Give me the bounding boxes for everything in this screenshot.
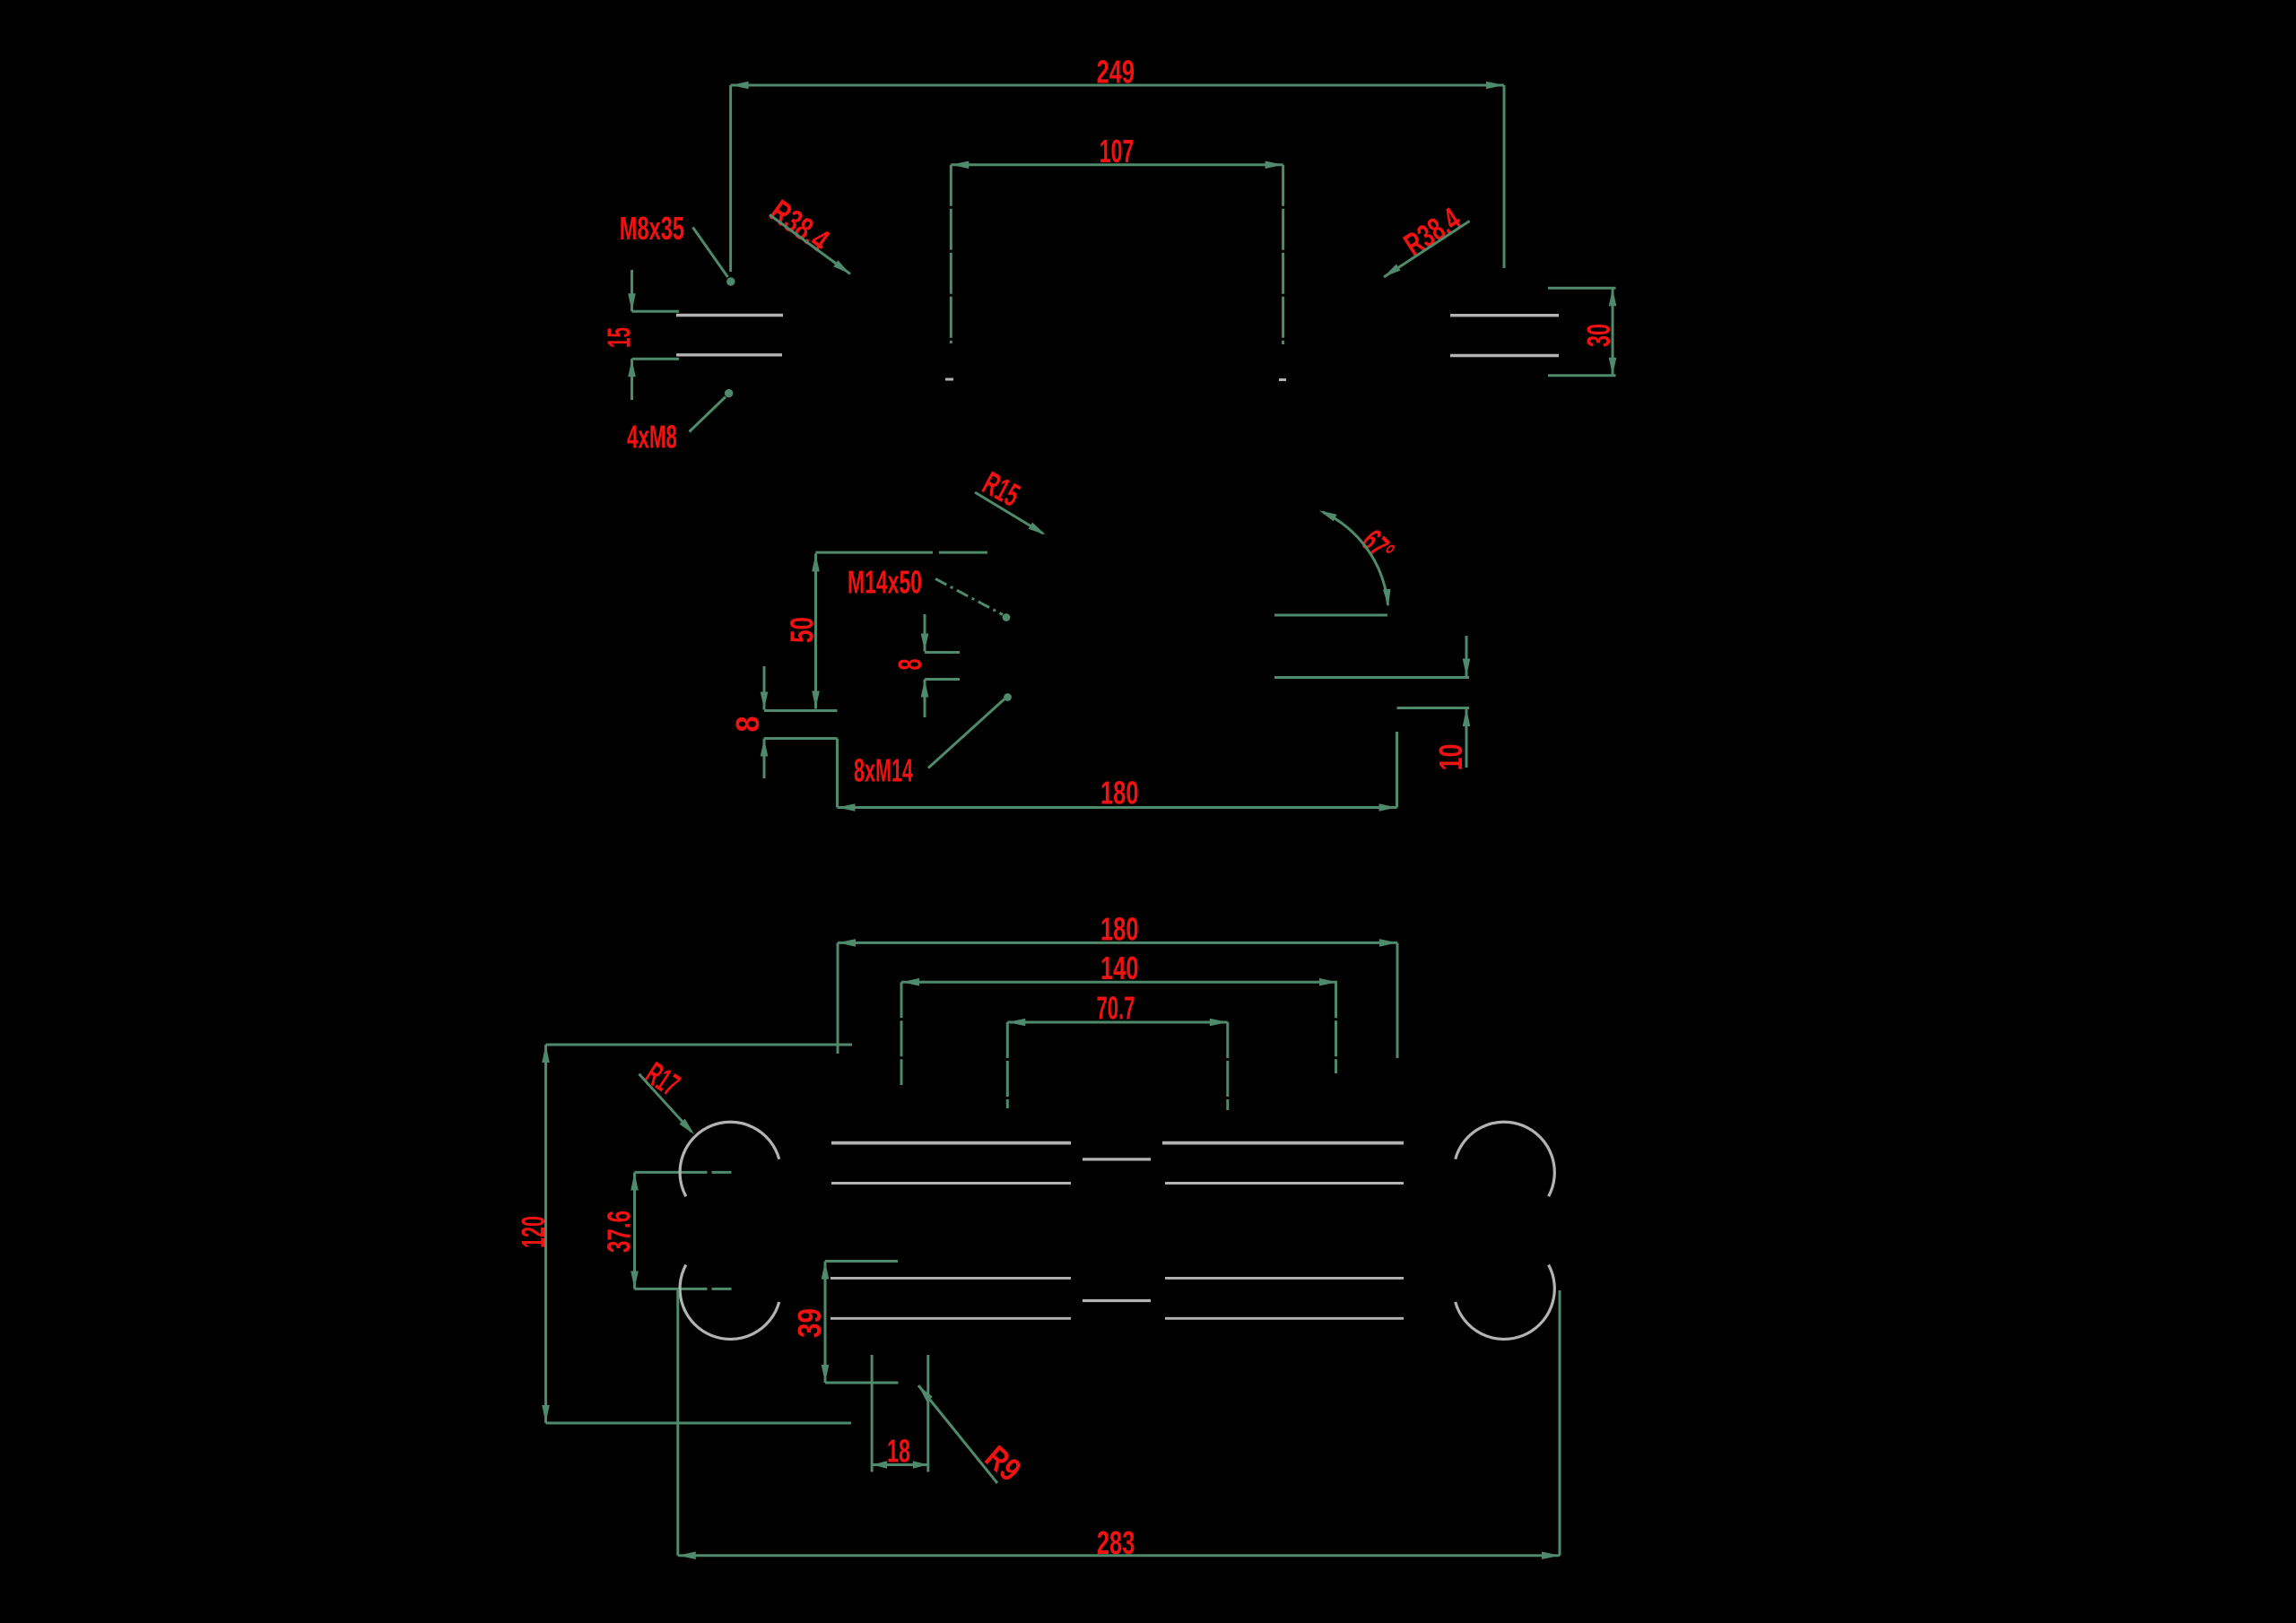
outline slot1 top left bbox=[831, 1141, 1071, 1145]
svg-text:37.6: 37.6 bbox=[601, 1211, 638, 1253]
ext line 180 bottom left bbox=[837, 942, 839, 1054]
leader R17 bbox=[639, 1074, 691, 1132]
arrow 67deg top bbox=[1319, 510, 1337, 521]
dim line 10 upper bbox=[1465, 636, 1468, 677]
ext line 67deg horizontal bbox=[1274, 614, 1387, 617]
dim line 8 left upper bbox=[763, 666, 766, 710]
ext line 249 left bbox=[729, 85, 732, 272]
ext line 50 top b bbox=[939, 551, 987, 554]
arrow 140 right bbox=[1319, 978, 1337, 986]
hidden line hole right upper bbox=[1450, 314, 1559, 317]
arrow 10 top bbox=[1463, 659, 1471, 677]
arrow R38.4 right bbox=[1384, 265, 1401, 278]
ext line 180 side left bbox=[836, 739, 839, 808]
outline slot2 bottom left bbox=[831, 1317, 1071, 1320]
arrow 249 right bbox=[1486, 82, 1504, 90]
arrow 180 bottom left bbox=[838, 939, 856, 947]
arrow 30 top bbox=[1609, 288, 1617, 306]
hidden line hole left lower bbox=[676, 353, 782, 356]
ext line 8 left bottom bbox=[764, 737, 838, 740]
leader R9 bbox=[918, 1385, 997, 1483]
ext line 18 left bbox=[871, 1355, 874, 1472]
arrow 8 left top bbox=[761, 692, 769, 710]
ext line 107 right bbox=[1282, 165, 1284, 344]
leader M14x50 bbox=[935, 579, 1003, 615]
ext line 120 top bbox=[546, 1044, 853, 1046]
arrow 70.7 right bbox=[1210, 1019, 1228, 1027]
svg-text:10: 10 bbox=[1432, 744, 1469, 771]
outline waist bottom bbox=[1083, 1299, 1151, 1302]
outline waist top bbox=[1083, 1158, 1151, 1160]
ext line 15 top bbox=[632, 310, 680, 313]
arrow 15 bottom bbox=[628, 359, 636, 377]
outline slot1 bottom left bbox=[831, 1182, 1071, 1185]
arrow 8 mid bottom bbox=[921, 680, 929, 698]
edge tick right bbox=[1279, 378, 1286, 381]
arrow 50 bottom bbox=[812, 691, 820, 709]
edge tick left bbox=[945, 378, 953, 381]
ext line 8 mid bottom bbox=[925, 678, 960, 681]
dim line 50 bbox=[814, 553, 817, 708]
arc circle top-right R17 bbox=[1456, 1122, 1555, 1196]
dim line 15 lower bbox=[631, 359, 633, 400]
dim line 18 bbox=[872, 1463, 928, 1466]
arrow 70.7 left bbox=[1007, 1019, 1025, 1027]
arrow 18 left bbox=[872, 1461, 887, 1469]
center line bottom circle a bbox=[635, 1288, 708, 1290]
dim line 37.6 bbox=[633, 1173, 636, 1289]
ext line 70.7 left bbox=[1006, 1022, 1009, 1108]
outline slot2 bottom right bbox=[1165, 1317, 1404, 1320]
leader M8x35 bbox=[693, 228, 728, 278]
ext line 50 top a bbox=[815, 551, 933, 554]
ext line 18 right bbox=[926, 1355, 929, 1472]
dim line 107 bbox=[951, 163, 1283, 166]
svg-text:8: 8 bbox=[891, 659, 928, 671]
ext line 107 left bbox=[950, 165, 952, 343]
dim arc 67deg bbox=[1323, 512, 1388, 605]
dim line 8 mid upper bbox=[924, 614, 926, 652]
ext line 70.7 right bbox=[1226, 1022, 1229, 1110]
outline slot2 top right bbox=[1165, 1277, 1404, 1280]
arrow 67deg bottom bbox=[1383, 589, 1391, 607]
arrow 39 bottom bbox=[822, 1365, 830, 1383]
ext line 8 left top bbox=[764, 709, 838, 712]
ext line 30 bottom bbox=[1548, 374, 1616, 377]
ext line 140 left bbox=[900, 982, 903, 1085]
ext line 120 bottom bbox=[546, 1422, 852, 1425]
arrow 10 bottom bbox=[1463, 708, 1471, 726]
arrow 37.6 top bbox=[631, 1173, 639, 1191]
arrow R9 bbox=[918, 1385, 933, 1402]
ext line 8 mid top bbox=[925, 651, 960, 654]
arrow 120 top bbox=[542, 1045, 550, 1063]
dim line 140 bbox=[901, 981, 1337, 984]
ext line 15 bottom bbox=[632, 358, 680, 360]
arrow R17 bbox=[679, 1119, 694, 1135]
svg-text:70.7: 70.7 bbox=[1097, 989, 1135, 1026]
arrow 30 bottom bbox=[1609, 358, 1617, 376]
center line bottom circle b bbox=[712, 1288, 732, 1290]
arrow 107 left bbox=[951, 161, 969, 169]
ext line 249 right bbox=[1503, 85, 1506, 268]
svg-text:M14x50: M14x50 bbox=[848, 564, 922, 601]
arrow 180 bottom right bbox=[1379, 939, 1397, 947]
outline slot2 top left bbox=[831, 1277, 1071, 1280]
outline slot1 top right bbox=[1162, 1141, 1404, 1145]
hidden line hole right lower bbox=[1450, 354, 1559, 357]
arrow 50 top bbox=[812, 553, 820, 571]
leader R15 bbox=[975, 492, 1043, 534]
leader 4xM8 bbox=[690, 397, 726, 432]
dim line 15 upper bbox=[631, 270, 633, 311]
arrow 180 side left bbox=[838, 803, 856, 811]
dim line 120 bbox=[544, 1045, 547, 1423]
dim line 8 mid lower bbox=[924, 680, 926, 718]
arrow 37.6 bottom bbox=[631, 1271, 639, 1289]
ext line 283 right bbox=[1559, 1290, 1561, 1556]
arrow 283 left bbox=[678, 1551, 696, 1559]
arc circle top-left R17 bbox=[680, 1122, 779, 1196]
ext line 39 bottom bbox=[825, 1382, 899, 1384]
dim line 283 bbox=[678, 1554, 1560, 1557]
dim line 70.7 bbox=[1007, 1021, 1228, 1024]
ext line 39 top bbox=[825, 1260, 898, 1263]
svg-text:8xM14: 8xM14 bbox=[854, 752, 913, 789]
leader R38.4 right bbox=[1384, 221, 1470, 278]
leader 8xM14 bbox=[928, 699, 1004, 768]
hidden line hole left upper bbox=[676, 314, 783, 317]
arc circle bottom-right R17 bbox=[1456, 1265, 1555, 1340]
center line top circle b bbox=[712, 1171, 732, 1174]
svg-text:39: 39 bbox=[791, 1308, 828, 1338]
arrow 39 top bbox=[822, 1262, 830, 1280]
arrow 249 left bbox=[731, 82, 749, 90]
arrow R38.4 left bbox=[833, 260, 850, 273]
arrow 15 top bbox=[628, 293, 636, 311]
ext line 10 top bbox=[1274, 676, 1469, 679]
arrow 180 side right bbox=[1379, 803, 1397, 811]
center line top circle a bbox=[635, 1171, 708, 1174]
svg-text:M8x35: M8x35 bbox=[620, 210, 684, 247]
arrow 283 right bbox=[1542, 1551, 1560, 1559]
ext line 180 side right bbox=[1396, 732, 1398, 808]
dim line 10 lower bbox=[1465, 708, 1468, 768]
leader dot 4xM8 bbox=[725, 389, 733, 397]
arrow 8 mid top bbox=[921, 634, 929, 652]
dim line 249 bbox=[731, 84, 1504, 87]
arrow R15 bbox=[1029, 523, 1046, 535]
leader R38.4 left bbox=[770, 215, 850, 274]
svg-text:180: 180 bbox=[1100, 775, 1139, 811]
leader dot M8x35 bbox=[726, 277, 735, 285]
arc circle bottom-left R17 bbox=[680, 1265, 779, 1340]
leader dot 8xM14 bbox=[1004, 693, 1012, 701]
svg-text:4xM8: 4xM8 bbox=[627, 419, 677, 456]
svg-text:8: 8 bbox=[729, 716, 766, 733]
arrow 107 right bbox=[1265, 161, 1283, 169]
dim line 180 side bbox=[838, 806, 1397, 809]
ext line 180 bottom right bbox=[1396, 942, 1399, 1058]
dim line 30 bbox=[1612, 288, 1614, 376]
leader dot M14x50 bbox=[1003, 613, 1011, 621]
arrow 140 left bbox=[901, 978, 919, 986]
dim line 8 left lower bbox=[763, 739, 766, 779]
outline slot1 bottom right bbox=[1165, 1182, 1404, 1185]
dim line 180 bottom bbox=[838, 942, 1397, 944]
ext line 10 bottom bbox=[1397, 707, 1470, 709]
ext line 283 left bbox=[676, 1289, 679, 1556]
arrow 8 left bottom bbox=[761, 739, 769, 757]
svg-text:15: 15 bbox=[601, 327, 638, 348]
arrow 120 bottom bbox=[542, 1405, 550, 1423]
arrow 18 right bbox=[913, 1461, 928, 1469]
dim line 39 bbox=[824, 1262, 827, 1384]
ext line 30 top bbox=[1548, 287, 1616, 290]
ext line 140 right bbox=[1335, 982, 1337, 1073]
